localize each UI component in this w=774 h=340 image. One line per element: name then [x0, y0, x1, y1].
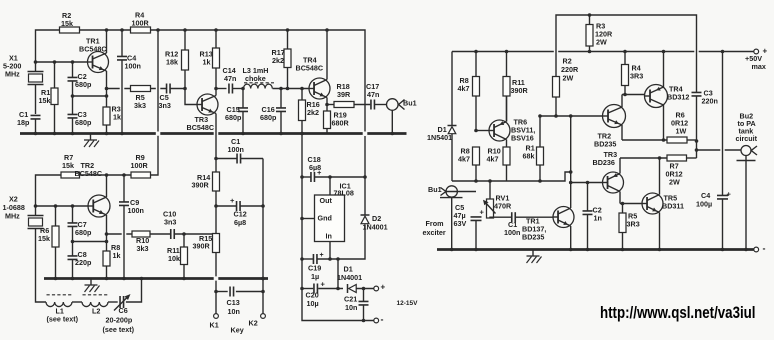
wire 8V drop x365 mid segment	[364, 136, 366, 215]
junction dots C15	[241, 87, 245, 136]
svg-text:15k: 15k	[39, 96, 51, 105]
svg-text:choke: choke	[245, 74, 266, 83]
label RV1 470R	[494, 194, 512, 211]
svg-text:15k: 15k	[62, 161, 74, 170]
svg-text:3k3: 3k3	[137, 244, 149, 253]
junction dot C4 at bus	[721, 248, 725, 252]
terminal K2	[261, 314, 266, 319]
svg-text:+: +	[763, 47, 768, 56]
label C5 3n3	[159, 93, 171, 110]
transistor TR1 BC548C	[88, 30, 109, 107]
label R4 100R	[132, 11, 150, 28]
label Bu1 input	[428, 185, 442, 194]
label Bu2 to PA tank circuit	[736, 112, 758, 144]
label R11 10k	[167, 246, 180, 263]
svg-text:Bu1: Bu1	[403, 99, 417, 108]
svg-text:(see text): (see text)	[47, 315, 79, 324]
connector Bu1 output	[375, 99, 405, 134]
svg-text:-: -	[763, 243, 766, 253]
junction dot R11 top	[182, 232, 186, 236]
label R3 1k	[112, 105, 122, 122]
svg-text:Gnd: Gnd	[318, 214, 332, 223]
capacitor C1 100n	[490, 212, 553, 222]
svg-text:1k: 1k	[113, 113, 121, 122]
label C13 10n	[227, 298, 240, 316]
svg-text:2k2: 2k2	[307, 108, 319, 117]
capacitor C5 47u 63V electrolytic	[471, 207, 485, 249]
capacitor C4 100u electrolytic	[717, 52, 732, 250]
label Bu1	[403, 99, 417, 108]
transistor TR1 BD137 BD235	[553, 207, 574, 250]
svg-text:In: In	[326, 232, 332, 241]
label C15 680p	[225, 105, 242, 122]
junction dot TR1 emitter at bus	[569, 248, 573, 252]
junction dots y241.5	[71, 240, 109, 244]
label C1 18p	[17, 110, 30, 127]
svg-text:4k7: 4k7	[458, 155, 470, 164]
svg-text:10k: 10k	[168, 254, 180, 263]
label L1 see text	[47, 307, 79, 324]
resistor R7 15k	[61, 172, 80, 178]
capacitor C20 10u electrolytic	[302, 280, 343, 294]
svg-text:1N5401: 1N5401	[427, 133, 452, 142]
inductor L3 1mH choke	[244, 84, 310, 88]
label C21 10n	[344, 295, 357, 313]
junction dots 8V output node	[328, 175, 367, 179]
junction dot TR5 emitter at bus	[658, 248, 662, 252]
svg-text:BD236: BD236	[593, 158, 615, 167]
junction dot R12/base node	[183, 87, 187, 91]
diode D1 1N5401	[448, 52, 457, 182]
capacitor C5 3n3	[167, 84, 171, 94]
label TR1 BC548C	[79, 37, 107, 54]
junction dot emitter node	[105, 87, 109, 91]
junction dots on bias wire	[474, 170, 572, 183]
label 12-15V	[397, 300, 419, 307]
resistor R4 3R3	[622, 52, 629, 95]
label C12 6u8	[234, 210, 247, 228]
junction dots R16	[300, 87, 304, 136]
junction dot TR4 collector at y140	[662, 138, 666, 142]
wire output to Bu2 y150	[697, 149, 742, 151]
junction dots C4	[120, 28, 124, 135]
transistor TR4 BC548C	[309, 30, 330, 105]
resistor R11 390R	[503, 52, 510, 122]
terminal +50V	[754, 47, 768, 56]
transistor TR2 BD235	[603, 95, 626, 141]
junction dot R3 top	[588, 13, 592, 17]
label R6 0R12 1W	[671, 111, 688, 136]
wire top link R3 to C3	[556, 15, 697, 92]
junction dot x158 at rail	[156, 28, 160, 32]
resistor R8 1k	[103, 234, 110, 279]
svg-text:10µ: 10µ	[307, 299, 319, 308]
label IC1 78L08	[334, 182, 354, 198]
label C19 1u	[308, 264, 321, 282]
label R5 3k3	[134, 93, 146, 110]
label R15 390R	[193, 234, 213, 251]
ground symbol right	[527, 250, 542, 264]
resistor R6 0R12 1W	[667, 137, 697, 143]
svg-text:100µ: 100µ	[696, 200, 712, 209]
labels K1 Key K2	[210, 319, 258, 335]
svg-text:20-200p: 20-200p	[106, 316, 133, 325]
svg-text:10n: 10n	[228, 307, 240, 316]
junction dot C5 at bus	[474, 248, 478, 252]
svg-text:680p: 680p	[75, 118, 92, 127]
svg-text:100n: 100n	[128, 206, 144, 215]
label R8 4k7 upper	[458, 76, 470, 93]
label C18 6u8	[308, 155, 322, 172]
label TR2 BC548C	[75, 161, 103, 178]
label R10 3k3	[136, 236, 149, 253]
junction dots In node	[328, 257, 340, 261]
svg-text:47n: 47n	[367, 90, 379, 99]
svg-text:390R: 390R	[192, 181, 210, 190]
svg-text:3R3: 3R3	[630, 72, 643, 81]
resistor R7 0R12 2W	[667, 155, 697, 161]
svg-text:+: +	[321, 280, 326, 289]
junction dot C21 bottom	[362, 319, 366, 323]
capacitor C19 1u	[313, 252, 323, 264]
wire L1 to L2	[72, 301, 82, 303]
capacitor C12 6u8 electrolytic	[216, 196, 263, 211]
label R8 1k	[111, 243, 121, 260]
svg-text:1k: 1k	[113, 251, 121, 260]
resistor R13 1k	[213, 30, 220, 89]
label C7 680p	[75, 220, 92, 237]
resistor R4 100R	[131, 27, 151, 33]
transistor TR3 BD236	[603, 158, 624, 204]
svg-text:circuit: circuit	[736, 134, 758, 143]
label C3 220n	[702, 89, 718, 106]
ground symbol lower	[85, 279, 100, 293]
svg-text:2k2: 2k2	[272, 56, 284, 65]
diode D2 1N4001	[361, 215, 370, 224]
resistor R2 15k	[60, 27, 80, 33]
wire TR3 emitter through bus hop down to key	[216, 154, 263, 314]
label C10 3n3	[163, 210, 176, 227]
label C1 100n	[504, 220, 520, 237]
svg-text:2W: 2W	[669, 178, 680, 187]
svg-text:63V: 63V	[454, 219, 467, 228]
label D1 1N5401	[427, 125, 452, 142]
svg-text:100n: 100n	[228, 145, 244, 154]
svg-text:15k: 15k	[38, 234, 50, 243]
junction dots on base wire	[538, 114, 572, 118]
junction dot supply node	[336, 287, 340, 291]
svg-text:BC548C: BC548C	[296, 64, 324, 73]
label C6 20-200p see text	[103, 306, 135, 334]
svg-text:220n: 220n	[702, 97, 718, 106]
inductor L1	[46, 295, 73, 307]
svg-text:12-15V: 12-15V	[397, 300, 419, 307]
label TR1 BD137 BD235	[522, 217, 546, 242]
inductor L2	[82, 295, 109, 307]
svg-text:4k7: 4k7	[458, 84, 470, 93]
svg-text:3R3: 3R3	[627, 220, 640, 229]
label R2 15k	[61, 11, 73, 28]
transistor TR3 BC548C	[197, 89, 218, 159]
wire C7-C8 node to TR2 emitter	[73, 241, 107, 243]
svg-text:6µ8: 6µ8	[309, 163, 321, 172]
svg-text:680p: 680p	[260, 113, 277, 122]
svg-text:680p: 680p	[225, 113, 242, 122]
capacitor C4 100n	[117, 30, 127, 134]
junction dot C21 top	[362, 287, 366, 291]
junction dot R14-R15 node	[214, 204, 218, 208]
label R7 0R12 2W	[666, 162, 683, 187]
label R7 15k	[62, 153, 74, 170]
label R18 39R	[337, 82, 351, 99]
junction dots on bus left	[34, 132, 109, 136]
capacitor C18 6u8 electrolytic	[302, 168, 365, 182]
svg-text:+: +	[480, 207, 485, 216]
wire TR3 base y182.5	[571, 182, 603, 184]
svg-text:15k: 15k	[61, 19, 73, 28]
svg-text:2W: 2W	[596, 38, 607, 47]
label R2 220R 2W	[561, 57, 579, 83]
wire TR6 base	[476, 130, 489, 132]
label C8 220p	[75, 250, 92, 267]
label C17 47n	[366, 82, 379, 99]
capacitor C1 18p	[31, 115, 41, 133]
junction dot R13 at rail	[214, 28, 218, 32]
junction dots TR4	[325, 28, 329, 106]
label TR6 BSV11 BSV16	[511, 118, 535, 143]
wire lower rail left corner to R7	[36, 175, 62, 206]
svg-text:1W: 1W	[676, 127, 687, 136]
label D2 1N4001	[363, 214, 388, 232]
transistor TR5 BD311	[642, 158, 663, 250]
resistor R5 3R3	[619, 204, 626, 250]
label R16 2k2	[307, 100, 320, 117]
wire emitter node to R10 (hop at C9)	[107, 233, 133, 235]
capacitor C2 1n	[583, 183, 593, 250]
svg-text:47n: 47n	[224, 74, 236, 83]
junction dots y175	[105, 173, 126, 177]
capacitor C3 220n	[692, 92, 702, 158]
label C4 100n	[125, 54, 141, 71]
svg-text:+: +	[727, 189, 732, 198]
label R1 15k	[39, 88, 51, 105]
resistor R5 3k3	[131, 86, 151, 92]
resistor R10 4k7	[503, 147, 510, 181]
svg-text:3k3: 3k3	[134, 101, 146, 110]
svg-text:1k: 1k	[203, 58, 211, 67]
svg-text:1N4001: 1N4001	[363, 223, 388, 232]
junction dots C1/C12/key line	[214, 157, 265, 294]
terminal -12-15V	[374, 314, 384, 324]
junction dots output node	[695, 139, 699, 152]
wire R5 to C5 (hop at x158)	[151, 88, 167, 90]
resistor R9 100R	[131, 172, 151, 178]
wire TR3 emitter-R7 y158	[620, 157, 667, 159]
label X1 5-200 MHz	[3, 54, 21, 79]
junction dot Bu1 shield at bus	[450, 248, 454, 252]
wire x365 bottom to IC1 In node	[318, 225, 366, 260]
svg-text:+: +	[320, 252, 324, 259]
capacitor C9 100n	[119, 175, 129, 279]
label R14 390R	[192, 173, 211, 190]
junction dot C2 at bus	[586, 248, 590, 252]
junction dot TR1 collector at rail	[105, 28, 109, 32]
resistor R2 220R 2W	[553, 77, 560, 117]
svg-text:MHz: MHz	[5, 70, 20, 79]
capacitor C1 100n (mid)	[228, 137, 244, 154]
wire X2 node y206	[36, 205, 89, 207]
label X2 1-0688 MHz	[3, 195, 25, 221]
svg-text:39R: 39R	[337, 90, 351, 99]
svg-text:http://www.qsl.net/va3iul: http://www.qsl.net/va3iul	[600, 304, 756, 322]
wire In node to C19 left	[303, 258, 313, 260]
label D1 1N4001	[337, 265, 362, 283]
resistor R11 10k	[181, 234, 188, 279]
svg-text:100R: 100R	[131, 161, 149, 170]
svg-text:BD235: BD235	[522, 233, 544, 242]
resistor R10 3k3	[132, 231, 170, 237]
wire L2 to C6	[108, 301, 118, 303]
resistor R1 15k	[51, 62, 58, 134]
capacitor C17 47n	[371, 100, 375, 110]
label TR3 BD236	[593, 150, 618, 167]
svg-text:68k: 68k	[523, 152, 535, 161]
capacitor C8 220p	[68, 242, 78, 279]
label R10 4k7	[487, 147, 501, 164]
svg-text:100R: 100R	[132, 19, 150, 28]
svg-text:680p: 680p	[75, 80, 92, 89]
svg-text:L2: L2	[92, 307, 100, 316]
label From exciter	[423, 219, 446, 237]
terminal K1	[214, 314, 219, 319]
junction dot C9 at bus	[122, 277, 126, 281]
wire base node y116	[540, 115, 603, 117]
wire C5 to TR3 base	[170, 89, 197, 105]
capacitor C21 10n	[359, 289, 369, 321]
junction dot R5 at bus	[621, 248, 625, 252]
svg-text:4k7: 4k7	[487, 155, 499, 164]
svg-text:BC548C: BC548C	[187, 123, 215, 132]
label R9 100R	[131, 153, 149, 170]
capacitor C14 47n	[216, 84, 243, 94]
junction dot C2 top	[586, 181, 590, 185]
svg-text:470R: 470R	[494, 202, 512, 211]
svg-text:2W: 2W	[563, 74, 574, 83]
label L3 1mH choke	[243, 66, 275, 83]
terminal minus right	[754, 243, 766, 253]
svg-text:BD311: BD311	[662, 202, 684, 211]
capacitor C3 680p	[68, 96, 78, 134]
svg-text:MHz: MHz	[5, 212, 20, 221]
ground bus lower y278.5	[44, 277, 268, 280]
label C2 680p	[75, 72, 92, 89]
label R13 1k	[200, 50, 213, 67]
svg-text:6µ8: 6µ8	[234, 218, 246, 227]
junction dot TR6 base at R8 line	[474, 129, 478, 133]
resistor R12 18k	[182, 30, 189, 89]
label TR4 BC548C	[296, 56, 324, 73]
resistor R17 2k2	[284, 30, 291, 89]
junction dot R5 top	[621, 202, 625, 206]
junction dot R4 bottom	[623, 93, 627, 97]
svg-text:220p: 220p	[75, 258, 92, 267]
junction dot TR2 emitter node	[105, 232, 109, 236]
junction dot TR3 base node	[569, 181, 573, 185]
junction dot TR3 collector node	[214, 87, 218, 91]
junction dots on X1 node	[34, 60, 75, 64]
wire ground drop x302 from bus to minus terminal	[302, 134, 374, 321]
label C3 680p	[75, 110, 92, 127]
svg-text:C13: C13	[227, 298, 240, 307]
wire 12V riser to In node	[337, 259, 339, 289]
svg-text:78L08: 78L08	[334, 188, 354, 197]
capacitor C16 680p	[276, 89, 286, 134]
wire TR1 emitter to R5 (hop at C4)	[107, 88, 131, 90]
ground bus upper y133.5	[20, 132, 407, 135]
svg-text:exciter: exciter	[423, 228, 446, 237]
wire TR2 collector node y94.5	[622, 94, 644, 96]
label R19 680R	[332, 111, 350, 128]
resistor R8 4k7 upper	[473, 52, 480, 131]
svg-text:100n: 100n	[125, 62, 141, 71]
label TR3 BC548C	[187, 115, 215, 132]
capacitor C7 680p	[68, 206, 78, 242]
svg-text:1n: 1n	[594, 214, 602, 223]
junction dot K1 branch	[214, 290, 218, 294]
potentiometer RV1 470R	[483, 181, 496, 218]
crystal X2	[28, 206, 47, 302]
junction dots on lower bus	[54, 277, 265, 281]
resistor R1 68k	[537, 116, 544, 181]
label R11 390R	[511, 78, 529, 95]
label R1 68k	[523, 144, 535, 161]
resistor R6 15k	[52, 206, 59, 279]
label C20 10u	[306, 291, 319, 309]
svg-text:18p: 18p	[17, 118, 30, 127]
connector Bu1 input	[440, 186, 476, 250]
label C2 1n	[593, 206, 602, 223]
label R4 3R3	[630, 64, 643, 81]
label +50V max	[745, 54, 766, 71]
terminal +12-15V	[374, 283, 386, 292]
junction dots C16	[279, 87, 283, 136]
resistor R18 39R	[327, 102, 370, 108]
svg-text:3n3: 3n3	[164, 218, 176, 227]
wire R7 to R9	[80, 174, 132, 176]
wire bias node y181	[452, 172, 571, 181]
capacitor C15 680p	[238, 89, 248, 134]
label R5 3R3	[627, 212, 640, 229]
svg-text:+: +	[230, 196, 235, 205]
wire top supply rail y30 with drops at x35.5 and x365	[36, 30, 366, 132]
wire +8V riser x158 from rail to R9	[151, 30, 159, 175]
ground symbol upper	[84, 134, 99, 148]
junction dot Bu2 shield at bus	[744, 248, 748, 252]
resistor R3 120R 2W	[586, 15, 593, 52]
resistor R8 4k7 lower	[473, 147, 480, 181]
crystal X1	[28, 62, 44, 114]
ground bus right y249.5	[437, 248, 754, 251]
label C16 680p	[260, 105, 277, 122]
svg-text:BD312: BD312	[667, 93, 689, 102]
junction dots on +50V rail	[474, 50, 724, 54]
svg-text:100n: 100n	[504, 228, 520, 237]
junction dot TR5 collector at y158	[658, 156, 662, 160]
svg-text:1N4001: 1N4001	[337, 273, 362, 282]
svg-text:K1: K1	[210, 321, 219, 330]
resistor R14 390R	[213, 159, 220, 207]
junction dots on x302 ground line	[300, 132, 304, 291]
